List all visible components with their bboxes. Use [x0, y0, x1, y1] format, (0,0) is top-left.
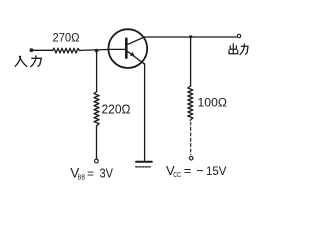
svg-text:3V: 3V	[100, 167, 114, 181]
svg-text:BB: BB	[78, 173, 86, 182]
svg-text:=: =	[87, 167, 94, 181]
svg-text:−: −	[196, 163, 204, 178]
svg-text:100Ω: 100Ω	[198, 96, 228, 110]
svg-text:15V: 15V	[206, 164, 227, 178]
svg-text:CC: CC	[173, 170, 181, 179]
svg-text:220Ω: 220Ω	[102, 103, 131, 117]
svg-text:270Ω: 270Ω	[53, 31, 80, 45]
svg-text:=: =	[184, 163, 192, 178]
